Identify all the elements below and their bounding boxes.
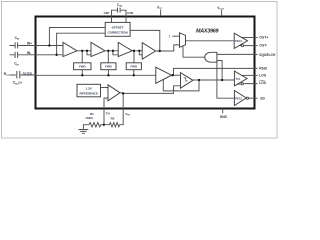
svg-text:-: - — [106, 97, 107, 101]
svg-text:+: + — [106, 86, 108, 90]
svg-text:SD: SD — [260, 96, 265, 100]
svg-text:OUT+: OUT+ — [259, 36, 268, 40]
svg-text:REFERENCE: REFERENCE — [79, 92, 98, 96]
svg-text:GND: GND — [220, 115, 228, 119]
svg-text:RSSI: RSSI — [259, 67, 267, 71]
svg-text:C2N: C2N — [127, 11, 133, 15]
svg-text:PECL: PECL — [235, 39, 243, 43]
svg-text:10kΩ: 10kΩ — [85, 116, 93, 120]
svg-text:TTL: TTL — [235, 77, 240, 81]
svg-text:LOS: LOS — [259, 74, 267, 78]
svg-text:OUT-: OUT- — [259, 44, 267, 48]
svg-text:PECL: PECL — [235, 96, 243, 100]
svg-text:1: 1 — [169, 35, 171, 39]
svg-text:R2: R2 — [111, 116, 115, 120]
svg-text:FWD: FWD — [105, 65, 112, 69]
svg-text:OFFSET: OFFSET — [112, 26, 124, 30]
svg-text:FILTER: FILTER — [23, 71, 32, 75]
svg-text:FWD: FWD — [79, 65, 86, 69]
svg-text:MAX3969: MAX3969 — [196, 28, 218, 34]
svg-text:SQUELCH: SQUELCH — [259, 53, 276, 57]
svg-text:C2P: C2P — [104, 11, 110, 15]
svg-text:FWD: FWD — [131, 65, 138, 69]
svg-text:IN+: IN+ — [27, 41, 32, 45]
svg-text:1.2V: 1.2V — [86, 87, 92, 91]
svg-text:IN-: IN- — [27, 51, 31, 55]
svg-text:LOS: LOS — [259, 81, 267, 85]
svg-text:TH: TH — [106, 112, 110, 116]
svg-text:CORRECTION: CORRECTION — [108, 31, 128, 35]
